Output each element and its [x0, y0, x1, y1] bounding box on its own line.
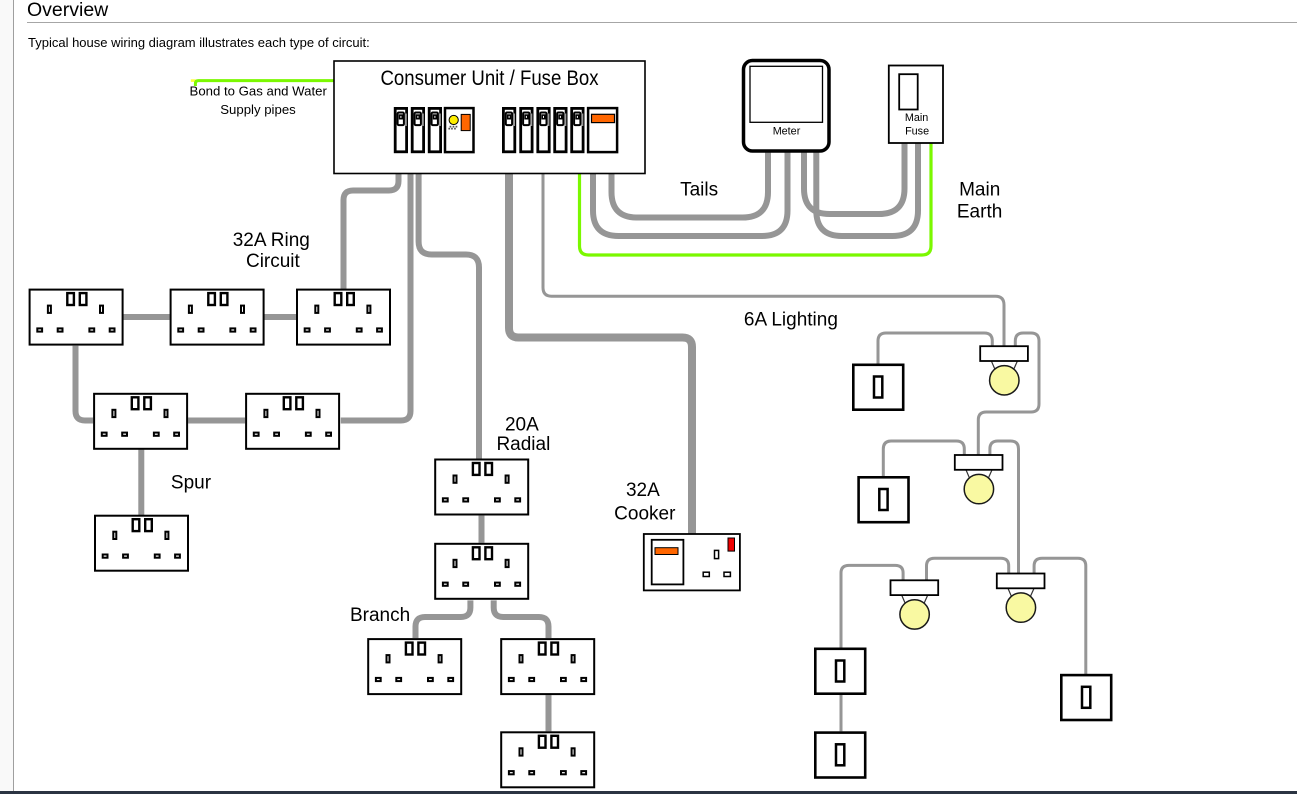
- svg-text:Spur: Spur: [171, 473, 212, 494]
- svg-text:Radial: Radial: [496, 434, 550, 455]
- svg-text:Cooker: Cooker: [614, 503, 676, 524]
- svg-text:Main: Main: [905, 112, 928, 124]
- svg-text:Branch: Branch: [350, 605, 410, 626]
- svg-text:Earth: Earth: [957, 202, 1002, 223]
- svg-text:Main: Main: [959, 179, 1000, 200]
- svg-text:32A: 32A: [626, 480, 660, 501]
- svg-text:Tails: Tails: [680, 180, 718, 201]
- svg-text:6A Lighting: 6A Lighting: [744, 310, 838, 331]
- svg-text:Consumer Unit / Fuse Box: Consumer Unit / Fuse Box: [381, 67, 599, 90]
- svg-text:Fuse: Fuse: [905, 126, 929, 138]
- svg-text:20A: 20A: [505, 414, 539, 435]
- svg-text:32A Ring: 32A Ring: [233, 230, 310, 251]
- svg-text:Supply pipes: Supply pipes: [220, 102, 296, 117]
- svg-text:Bond to Gas and Water: Bond to Gas and Water: [190, 84, 328, 99]
- svg-text:Meter: Meter: [773, 126, 801, 138]
- svg-text:Circuit: Circuit: [246, 251, 301, 272]
